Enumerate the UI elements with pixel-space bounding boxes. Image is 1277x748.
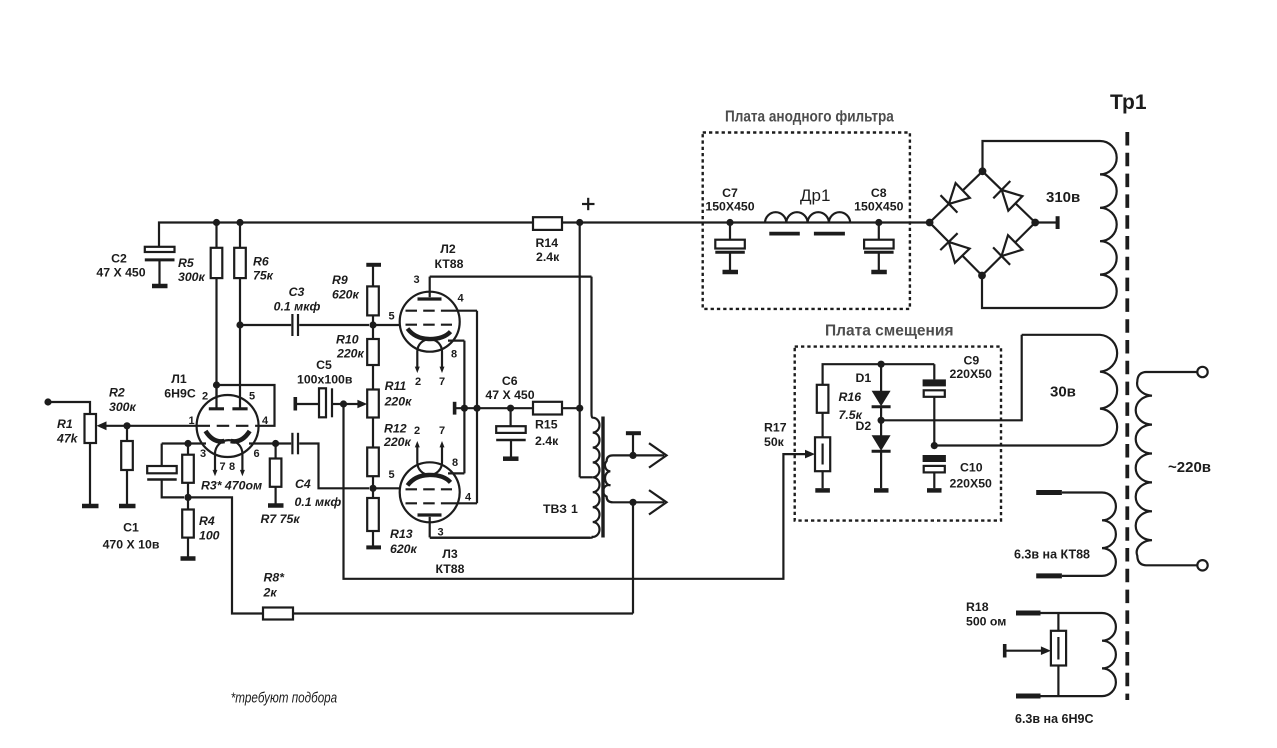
svg-text:7: 7	[219, 461, 225, 473]
node C5 bias	[340, 400, 347, 407]
svg-text:6.3в на 6Н9С: 6.3в на 6Н9С	[1015, 712, 1093, 726]
resistor R9	[332, 273, 379, 340]
svg-text:30в: 30в	[1050, 384, 1076, 401]
diode VD4 bottom-right	[993, 235, 1022, 265]
winding 220в	[1136, 367, 1211, 571]
svg-text:R3* 470ом: R3* 470ом	[201, 479, 262, 493]
plus sign	[582, 198, 595, 210]
svg-text:7: 7	[439, 425, 445, 437]
screen rail terminal	[455, 402, 533, 415]
wire grid1	[105, 425, 197, 427]
svg-text:*требуют подбора: *требуют подбора	[231, 690, 338, 707]
svg-text:8: 8	[451, 349, 457, 361]
svg-text:R8*: R8*	[264, 571, 286, 585]
node pin6	[272, 440, 279, 447]
diode D1	[856, 364, 891, 420]
wire R8 to secondary	[293, 612, 633, 614]
svg-text:C8: C8	[871, 186, 887, 200]
capacitor C2	[96, 247, 174, 286]
svg-text:~220в: ~220в	[1168, 459, 1211, 476]
board box bias	[795, 347, 1001, 521]
svg-text:5: 5	[388, 311, 394, 323]
resistor R2	[109, 386, 137, 507]
svg-text:R6: R6	[253, 255, 269, 269]
svg-text:4: 4	[262, 415, 269, 427]
svg-text:5: 5	[388, 469, 394, 481]
resistor R6	[234, 223, 273, 326]
wire anode Л2	[430, 276, 592, 278]
svg-text:2.4к: 2.4к	[535, 434, 559, 448]
resistor R7	[261, 444, 301, 527]
resistor R3	[182, 444, 262, 498]
tube U Л3 КТ88	[388, 425, 477, 576]
node R15 B+	[576, 405, 583, 412]
svg-text:C4: C4	[295, 477, 311, 491]
node cathode1	[184, 440, 191, 447]
wire cathode1	[162, 442, 206, 444]
svg-text:150X450: 150X450	[854, 200, 903, 214]
node R2 top	[123, 422, 130, 429]
node R3 R4 junction	[184, 494, 191, 501]
svg-text:Плата смещения: Плата смещения	[825, 323, 954, 340]
winding HV 310в	[982, 141, 1117, 308]
resistor R8	[263, 571, 294, 620]
svg-text:310в: 310в	[1046, 189, 1080, 206]
resistor R12	[367, 422, 411, 499]
node C8	[875, 219, 882, 226]
wire B+ top rail	[159, 223, 930, 248]
svg-text:8: 8	[452, 457, 458, 469]
svg-text:R13: R13	[390, 527, 413, 541]
svg-text:7: 7	[439, 376, 445, 388]
svg-text:220к: 220к	[384, 395, 413, 409]
node input	[44, 398, 51, 405]
winding 30в	[934, 335, 1117, 446]
svg-text:R4: R4	[199, 514, 215, 528]
svg-text:4: 4	[457, 293, 464, 305]
resistor R16	[817, 385, 863, 438]
svg-text:C10: C10	[960, 461, 983, 475]
svg-text:47k: 47k	[56, 432, 79, 446]
svg-text:4: 4	[465, 492, 472, 504]
svg-text:R2: R2	[109, 386, 125, 400]
wire cathode Л3 up	[463, 408, 465, 473]
secondary top terminal	[626, 433, 641, 455]
potentiometer R1	[56, 414, 107, 506]
grid chain top terminal	[366, 264, 381, 286]
svg-text:100: 100	[199, 529, 220, 543]
capacitor C7	[705, 186, 754, 272]
resistor R10	[336, 333, 379, 390]
diode D2	[856, 419, 891, 490]
diode VD1 top-left	[941, 183, 970, 213]
wire g2 Л2 down	[476, 311, 478, 409]
potentiometer R11	[357, 379, 412, 448]
svg-text:C6: C6	[502, 374, 518, 388]
capacitor C10	[923, 455, 992, 490]
node chain g1 upper	[369, 321, 376, 328]
svg-text:ТВЗ: ТВЗ	[543, 502, 567, 516]
tube U Л1 6Н9С	[164, 328, 269, 476]
potentiometer R18	[966, 600, 1066, 696]
capacitor C3	[240, 285, 369, 336]
resistor R14	[533, 217, 562, 264]
wire g1 Л3	[373, 487, 401, 489]
svg-text:620к: 620к	[332, 287, 360, 301]
svg-text:R12: R12	[384, 422, 407, 436]
arrow out2	[633, 490, 667, 514]
winding 6.3в 6Н9С	[1015, 613, 1116, 726]
node C6 top	[507, 405, 514, 412]
svg-text:50к: 50к	[764, 435, 785, 449]
svg-text:2: 2	[414, 425, 420, 437]
svg-text:300к: 300к	[109, 400, 137, 414]
svg-text:500 ом: 500 ом	[966, 615, 1006, 629]
node bridge top	[979, 167, 987, 175]
node bridge bottom	[978, 272, 986, 280]
svg-text:C5: C5	[316, 358, 332, 372]
svg-text:2.4к: 2.4к	[536, 250, 560, 264]
terminal 310в	[1035, 189, 1080, 229]
svg-text:6Н9С: 6Н9С	[164, 387, 196, 401]
svg-text:C7: C7	[722, 186, 738, 200]
wire g1 Л2	[373, 324, 401, 326]
winding 6.3в КТ88	[1014, 493, 1116, 576]
diode VD3 bottom-left	[940, 233, 969, 263]
node B+	[576, 219, 583, 226]
svg-text:100х100в: 100х100в	[297, 373, 353, 387]
svg-text:Тр1: Тр1	[1110, 91, 1147, 114]
svg-text:220X50: 220X50	[950, 476, 993, 490]
potentiometer R17	[764, 421, 830, 491]
svg-text:6.3в на КТ88: 6.3в на КТ88	[1014, 548, 1090, 562]
node rail R6	[236, 219, 243, 226]
svg-text:R11: R11	[385, 379, 407, 393]
wire anode Л3	[430, 536, 590, 538]
svg-text:Плата анодного фильтра: Плата анодного фильтра	[725, 109, 894, 126]
svg-text:47 X 450: 47 X 450	[96, 266, 145, 280]
svg-text:220к: 220к	[383, 435, 412, 449]
node D1 D2 junction	[878, 417, 885, 424]
svg-text:R18: R18	[966, 600, 989, 614]
capacitor C9	[923, 353, 992, 445]
resistor R15	[533, 402, 580, 448]
resistor R5	[178, 223, 222, 410]
capacitor C5	[295, 358, 353, 417]
svg-text:1: 1	[188, 415, 194, 427]
svg-text:R17: R17	[764, 421, 787, 435]
svg-text:Др1: Др1	[800, 186, 830, 205]
svg-text:0.1 мкф: 0.1 мкф	[295, 495, 342, 509]
wire C5 to R11 arrow	[344, 403, 359, 405]
node secondary out1	[629, 452, 636, 459]
svg-text:КТ88: КТ88	[434, 257, 463, 271]
capacitor C1	[103, 444, 184, 552]
svg-text:R16: R16	[839, 390, 862, 404]
svg-text:470 X 10в: 470 X 10в	[103, 537, 160, 551]
node plate1	[213, 381, 220, 388]
svg-text:8: 8	[229, 461, 235, 473]
svg-text:R14: R14	[536, 236, 559, 250]
svg-text:1: 1	[571, 502, 578, 516]
node chain g1 lower	[369, 485, 376, 492]
svg-text:Л1: Л1	[171, 372, 187, 386]
node cathode rail	[461, 405, 468, 412]
node C7	[726, 219, 733, 226]
svg-text:2: 2	[415, 376, 421, 388]
transformer core Тр1	[1110, 91, 1147, 700]
capacitor C8	[854, 186, 903, 272]
wire plate1 to grid2 box	[217, 385, 275, 426]
wire cathode2	[249, 442, 291, 444]
transformer ТВЗ 1	[430, 277, 633, 538]
node D1 top	[878, 361, 885, 368]
svg-text:220X50: 220X50	[950, 367, 993, 381]
svg-text:220к: 220к	[336, 347, 365, 361]
diode VD2 top-right	[993, 181, 1022, 211]
wire cathode Л2 down	[463, 341, 465, 409]
resistor R4	[181, 497, 220, 558]
wire input	[48, 402, 90, 414]
svg-text:47 X 450: 47 X 450	[485, 388, 534, 402]
svg-text:Л3: Л3	[442, 547, 458, 561]
svg-text:3: 3	[200, 448, 206, 460]
svg-text:R15: R15	[535, 417, 558, 431]
svg-text:D1: D1	[856, 371, 872, 385]
node screen rail	[473, 405, 480, 412]
wire B+ down to center tap	[579, 223, 581, 478]
svg-text:R7 75к: R7 75к	[261, 512, 301, 526]
svg-text:2к: 2к	[263, 586, 278, 600]
svg-text:R5: R5	[178, 256, 194, 270]
svg-text:C1: C1	[123, 521, 139, 535]
bridge rectifier	[930, 171, 1036, 275]
wire bias feed	[344, 404, 806, 579]
svg-text:C3: C3	[289, 285, 305, 299]
svg-text:300к: 300к	[178, 270, 206, 284]
svg-text:Л2: Л2	[440, 242, 456, 256]
board box anode filter	[703, 133, 910, 309]
svg-text:620к: 620к	[390, 542, 418, 556]
svg-text:150X450: 150X450	[705, 200, 754, 214]
tube U Л2 КТ88	[388, 242, 477, 388]
wire bias top	[823, 364, 935, 385]
svg-text:3: 3	[413, 274, 419, 286]
svg-text:0.1 мкф: 0.1 мкф	[274, 300, 321, 314]
resistor R13	[366, 498, 417, 556]
svg-text:C9: C9	[964, 353, 980, 367]
svg-text:5: 5	[249, 391, 255, 403]
wire feedback to R8	[188, 497, 263, 613]
svg-text:R1: R1	[57, 417, 73, 431]
node rail R5	[213, 219, 220, 226]
svg-text:2: 2	[202, 391, 208, 403]
wire D1 D2 to winding 30в	[881, 335, 1022, 421]
svg-text:КТ88: КТ88	[435, 562, 464, 576]
capacitor C6	[485, 374, 534, 459]
node plate2 C3	[236, 321, 243, 328]
node bridge left	[926, 219, 934, 227]
svg-text:R10: R10	[336, 333, 359, 347]
wire secondary out2 down	[632, 502, 634, 613]
node secondary out2	[629, 499, 636, 506]
svg-text:R9: R9	[332, 273, 348, 287]
svg-text:C2: C2	[111, 252, 127, 266]
arrow out1	[633, 443, 667, 467]
node C9 C10 winding	[931, 442, 938, 449]
inductor Др1	[765, 186, 850, 234]
capacitor C4	[292, 433, 369, 509]
node bridge right	[1031, 219, 1039, 227]
svg-text:6: 6	[253, 448, 259, 460]
svg-text:75к: 75к	[253, 269, 274, 283]
wire g2 Л3 up	[476, 408, 478, 503]
svg-text:D2: D2	[856, 419, 872, 433]
